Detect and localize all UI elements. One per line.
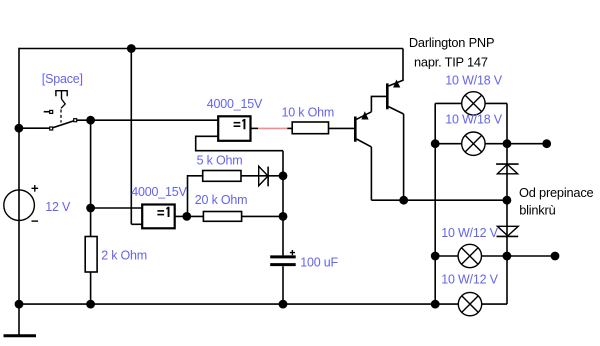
- svg-text:napr. TIP 147: napr. TIP 147: [414, 55, 488, 70]
- svg-text:10 W/18 V: 10 W/18 V: [445, 74, 502, 88]
- svg-text:20 k Ohm: 20 k Ohm: [195, 193, 248, 207]
- svg-text:4000_15V: 4000_15V: [207, 97, 263, 111]
- svg-text:2 k Ohm: 2 k Ohm: [101, 249, 147, 263]
- svg-text:12 V: 12 V: [45, 200, 71, 214]
- svg-text:10 W/18 V: 10 W/18 V: [445, 113, 502, 127]
- svg-text:Darlington PNP: Darlington PNP: [409, 35, 494, 50]
- svg-text:5 k Ohm: 5 k Ohm: [197, 153, 243, 167]
- svg-text:Od prepinace: Od prepinace: [519, 185, 594, 200]
- svg-text:blinkrù: blinkrù: [519, 202, 555, 217]
- svg-text:10 k Ohm: 10 k Ohm: [282, 106, 335, 120]
- svg-text:100 uF: 100 uF: [300, 256, 338, 270]
- svg-text:[Space]: [Space]: [42, 72, 83, 86]
- svg-text:4000_15V: 4000_15V: [131, 185, 187, 199]
- svg-text:10 W/12 V: 10 W/12 V: [441, 226, 498, 240]
- svg-text:10 W/12 V: 10 W/12 V: [441, 273, 498, 287]
